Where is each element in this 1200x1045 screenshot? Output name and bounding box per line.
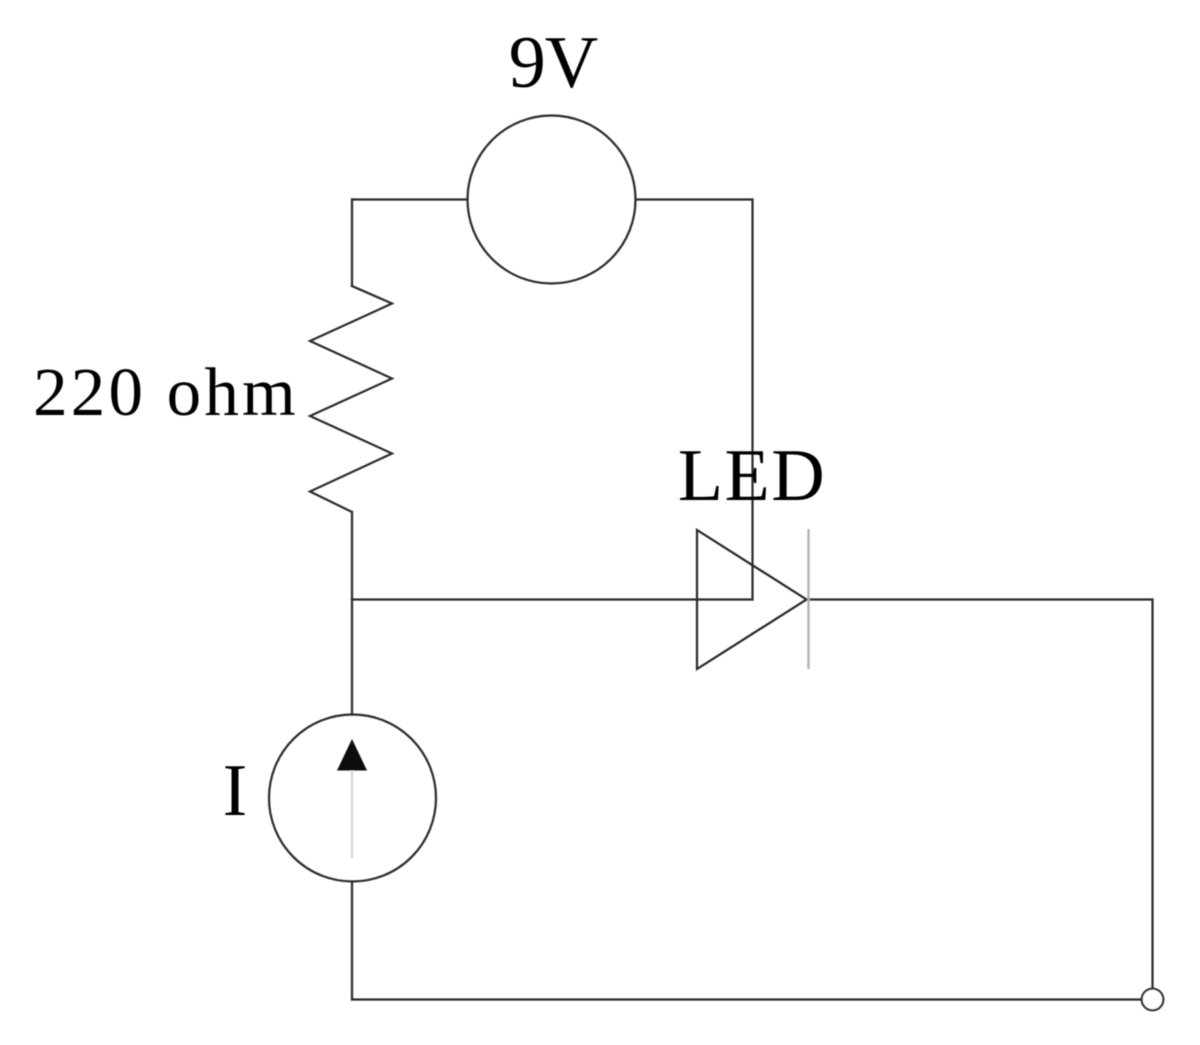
wire right vertical down to terminal	[1151, 600, 1153, 989]
current source arrow shaft	[351, 770, 353, 858]
current source arrow head	[337, 739, 367, 771]
wire left vertical above resistor	[351, 200, 353, 287]
wire node down to current source	[351, 600, 353, 715]
LED D1 triangle	[697, 530, 807, 669]
current source I circle	[269, 715, 436, 882]
open terminal circle	[1142, 989, 1164, 1011]
svg-text:I: I	[223, 750, 248, 832]
wire below resistor to node	[351, 512, 353, 600]
wire bottom horizontal	[352, 998, 1141, 1000]
wire current source to bottom	[351, 882, 353, 1000]
svg-text:9V: 9V	[509, 22, 598, 104]
wire top-left horizontal	[352, 198, 468, 200]
wire top-right horizontal	[636, 198, 753, 200]
wire LED cathode to right corner	[807, 598, 1153, 600]
svg-text:LED: LED	[678, 435, 826, 517]
LED cathode bar	[807, 529, 809, 669]
svg-text:220 ohm: 220 ohm	[33, 354, 299, 430]
wire node to LED anode	[352, 598, 753, 600]
resistor R (220 ohm) zigzag	[310, 286, 392, 512]
voltage source V1 circle (9V)	[468, 116, 636, 284]
wire right vertical from source to LED row	[751, 200, 753, 600]
